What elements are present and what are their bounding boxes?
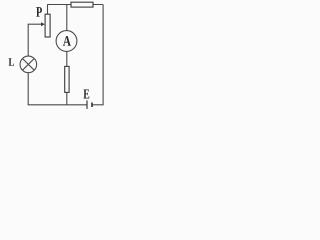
wire arrow horizontal (wiper lead) — [28, 23, 42, 25]
ammeter A (circle) — [56, 31, 77, 52]
wire ammeter to resistor box — [66, 52, 68, 67]
wire bottom left (lamp corner to battery) — [28, 104, 87, 106]
battery short thick plate (negative) — [91, 103, 93, 108]
battery long plate (positive) — [86, 100, 88, 109]
wire resistor bottom to bottom wire — [66, 93, 68, 105]
label A inside ammeter — [63, 36, 71, 46]
label L — [9, 58, 15, 66]
rheostat P (vertical box) — [45, 14, 50, 37]
wire left upper (arrow corner down to lamp top) — [27, 24, 29, 56]
wire top (rheostat top to top-right corner) — [47, 4, 103, 6]
background — [0, 0, 107, 118]
resistor R horizontal box on top wire — [71, 2, 93, 7]
label E — [83, 89, 89, 98]
wire left lower (lamp bottom to bottom-left corner) — [27, 73, 29, 105]
lamp L (circle with X) — [20, 56, 37, 73]
wire ammeter branch upper (top wire junction down to ammeter) — [66, 5, 68, 31]
wire bottom right (battery to right corner) — [92, 104, 104, 106]
lamp X stroke 1 — [23, 59, 35, 71]
arrowhead of rheostat wiper — [41, 22, 45, 26]
resistor vertical box below ammeter — [65, 66, 69, 92]
label P — [36, 7, 42, 17]
wire rheostat top lead — [47, 5, 49, 15]
wire right side (top-right corner down to bottom-right) — [102, 5, 104, 105]
lamp X stroke 2 — [23, 59, 35, 71]
